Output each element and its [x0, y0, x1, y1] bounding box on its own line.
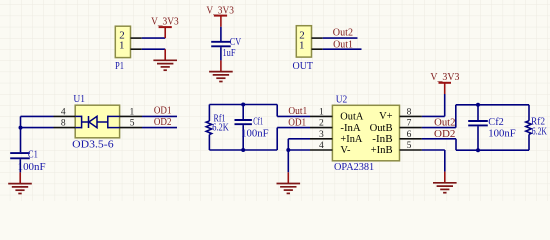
svg-text:OD1: OD1 — [288, 117, 306, 129]
junction — [19, 126, 23, 130]
svg-text:U1: U1 — [73, 93, 85, 105]
wire net Out1 — [323, 48, 362, 50]
svg-text:V_3V3: V_3V3 — [206, 4, 234, 16]
junction Cf2 top — [476, 103, 480, 107]
svg-text:5: 5 — [130, 118, 135, 128]
power port V_3V3 right — [430, 71, 459, 94]
wire down to ground right — [444, 150, 446, 172]
svg-text:1: 1 — [299, 39, 305, 51]
wire top rail left loop — [209, 104, 277, 106]
photodiode U1 OD3.5-6 — [72, 93, 119, 151]
pin 5 of U2 — [400, 141, 422, 151]
ground at CV — [209, 60, 233, 81]
junction Cf2 bottom — [476, 148, 480, 152]
svg-text:Out1: Out1 — [333, 38, 353, 50]
wire down to ground — [287, 150, 289, 172]
junction Cf1 top — [241, 103, 245, 107]
connector P1 — [115, 26, 131, 72]
svg-text:OPA2381: OPA2381 — [334, 161, 374, 173]
svg-text:V+: V+ — [379, 111, 393, 122]
svg-text:OutA: OutA — [340, 112, 363, 123]
wire net OD1 to U2 pin2 — [277, 127, 310, 129]
svg-text:6.2K: 6.2K — [212, 122, 229, 134]
ground at C1 — [8, 172, 32, 193]
svg-text:Out2: Out2 — [434, 117, 455, 129]
svg-text:100nF: 100nF — [18, 161, 46, 173]
wire U2 pin3 to junction — [288, 138, 310, 140]
svg-text:8: 8 — [407, 107, 412, 117]
pin 2 of P1 — [131, 37, 142, 39]
svg-text:OutB: OutB — [370, 123, 393, 134]
U1 inner diode symbol — [75, 116, 119, 129]
pin 5 of U1 — [120, 118, 142, 128]
svg-text:OUT: OUT — [293, 60, 314, 72]
pin 1 of P1 — [131, 48, 142, 50]
pin 2 of OUT — [312, 37, 323, 39]
wire U2 pin4 — [288, 149, 310, 151]
wire jog OD1 — [276, 128, 278, 150]
capacitor Cf2 100nF — [468, 105, 516, 150]
svg-text:-InB: -InB — [372, 134, 392, 145]
pin 4 of U1 — [54, 107, 76, 117]
wire U1 pin8 left — [21, 127, 54, 129]
svg-text:P1: P1 — [115, 60, 124, 72]
svg-text:100nF: 100nF — [488, 127, 516, 139]
power port V_3V3 at P1 — [151, 16, 179, 38]
svg-text:1: 1 — [319, 107, 324, 117]
wire P1 pin1 to ground — [142, 48, 165, 50]
svg-text:100nF: 100nF — [241, 127, 269, 139]
pin 8 of U2 — [400, 107, 422, 117]
op-amp U2 OPA2381 — [332, 94, 399, 173]
svg-text:4: 4 — [61, 107, 66, 117]
pin 2 of U2 — [310, 119, 332, 129]
svg-text:6: 6 — [407, 130, 412, 140]
wire CV bottom to ground — [220, 47, 222, 60]
wire jog pin3 down — [287, 139, 289, 150]
junction Cf1 bottom — [241, 148, 245, 152]
wire up to power — [444, 94, 446, 116]
svg-text:3: 3 — [319, 130, 324, 140]
svg-text:Out2: Out2 — [333, 27, 353, 39]
svg-text:Cf1: Cf1 — [253, 115, 263, 127]
svg-text:OD3.5-6: OD3.5-6 — [72, 139, 114, 151]
svg-text:4: 4 — [319, 141, 324, 151]
svg-text:V_3V3: V_3V3 — [151, 16, 179, 28]
svg-text:OD2: OD2 — [154, 116, 172, 128]
wire power to CV top — [220, 27, 222, 41]
capacitor C1 100nF — [10, 149, 45, 173]
svg-text:1: 1 — [119, 39, 125, 51]
svg-text:OD2: OD2 — [434, 128, 455, 140]
svg-text:2: 2 — [319, 119, 324, 129]
connector OUT — [293, 26, 314, 72]
capacitor CV 1uF — [211, 36, 241, 59]
svg-text:U2: U2 — [336, 94, 348, 106]
svg-text:1uF: 1uF — [223, 47, 236, 59]
wire P1 pin2 to power — [142, 37, 165, 39]
wire jog down right loop — [455, 139, 457, 150]
pin 3 of U2 — [310, 130, 332, 140]
svg-text:5: 5 — [407, 141, 412, 151]
wire C1 to ground — [19, 159, 21, 172]
junction ground node — [286, 148, 290, 152]
svg-text:-InA: -InA — [340, 123, 361, 134]
power port V_3V3 at CV — [206, 4, 234, 27]
wire U2 pin7 net Out2 — [422, 127, 456, 129]
ground under U2 — [277, 172, 301, 193]
svg-text:8: 8 — [61, 118, 66, 128]
capacitor Cf1 100nF — [235, 105, 269, 151]
wire down to C1 — [20, 116, 22, 152]
wire jog to Out1 — [276, 105, 278, 117]
ground right — [433, 172, 457, 193]
wire net OD2 from U1 — [142, 127, 177, 129]
svg-text:V_3V3: V_3V3 — [430, 71, 459, 83]
pin 8 of U1 — [54, 118, 76, 128]
resistor Rf1 6.2K — [206, 105, 229, 151]
pin 1 of U1 — [120, 107, 142, 117]
ground at P1 pin1 — [153, 49, 177, 70]
wire U2 pin8 to power — [422, 115, 445, 117]
svg-text:1: 1 — [130, 107, 135, 117]
pin 1 of U2 — [310, 107, 332, 117]
wire U2 pin5 to ground — [422, 149, 445, 151]
svg-text:OD1: OD1 — [154, 105, 172, 117]
svg-text:C1: C1 — [28, 149, 38, 161]
resistor Rf2 6.2K — [526, 105, 547, 150]
svg-text:+InA: +InA — [340, 134, 362, 145]
wire bottom rail left loop — [209, 149, 277, 151]
svg-text:V-: V- — [340, 145, 351, 156]
svg-text:Cf2: Cf2 — [488, 116, 504, 128]
pin 7 of U2 — [400, 119, 422, 129]
svg-text:6.2K: 6.2K — [532, 126, 547, 138]
svg-text:7: 7 — [407, 119, 412, 129]
wire net Out2 — [323, 37, 358, 39]
wire U2 pin6 net OD2 — [422, 138, 456, 140]
wire bottom rail right loop — [456, 149, 529, 151]
svg-text:+InB: +InB — [371, 145, 393, 156]
svg-text:Out1: Out1 — [288, 105, 307, 117]
wire top rail right loop — [456, 104, 529, 106]
pin 6 of U2 — [400, 130, 422, 140]
pin 1 of OUT — [312, 48, 323, 50]
wire net Out1 to U2 pin1 — [277, 115, 310, 117]
wire jog up right loop — [455, 105, 457, 128]
wire net OD1 from U1 — [142, 115, 177, 117]
pin 4 of U2 — [310, 141, 332, 151]
wire U1 pin4 left — [21, 115, 54, 117]
